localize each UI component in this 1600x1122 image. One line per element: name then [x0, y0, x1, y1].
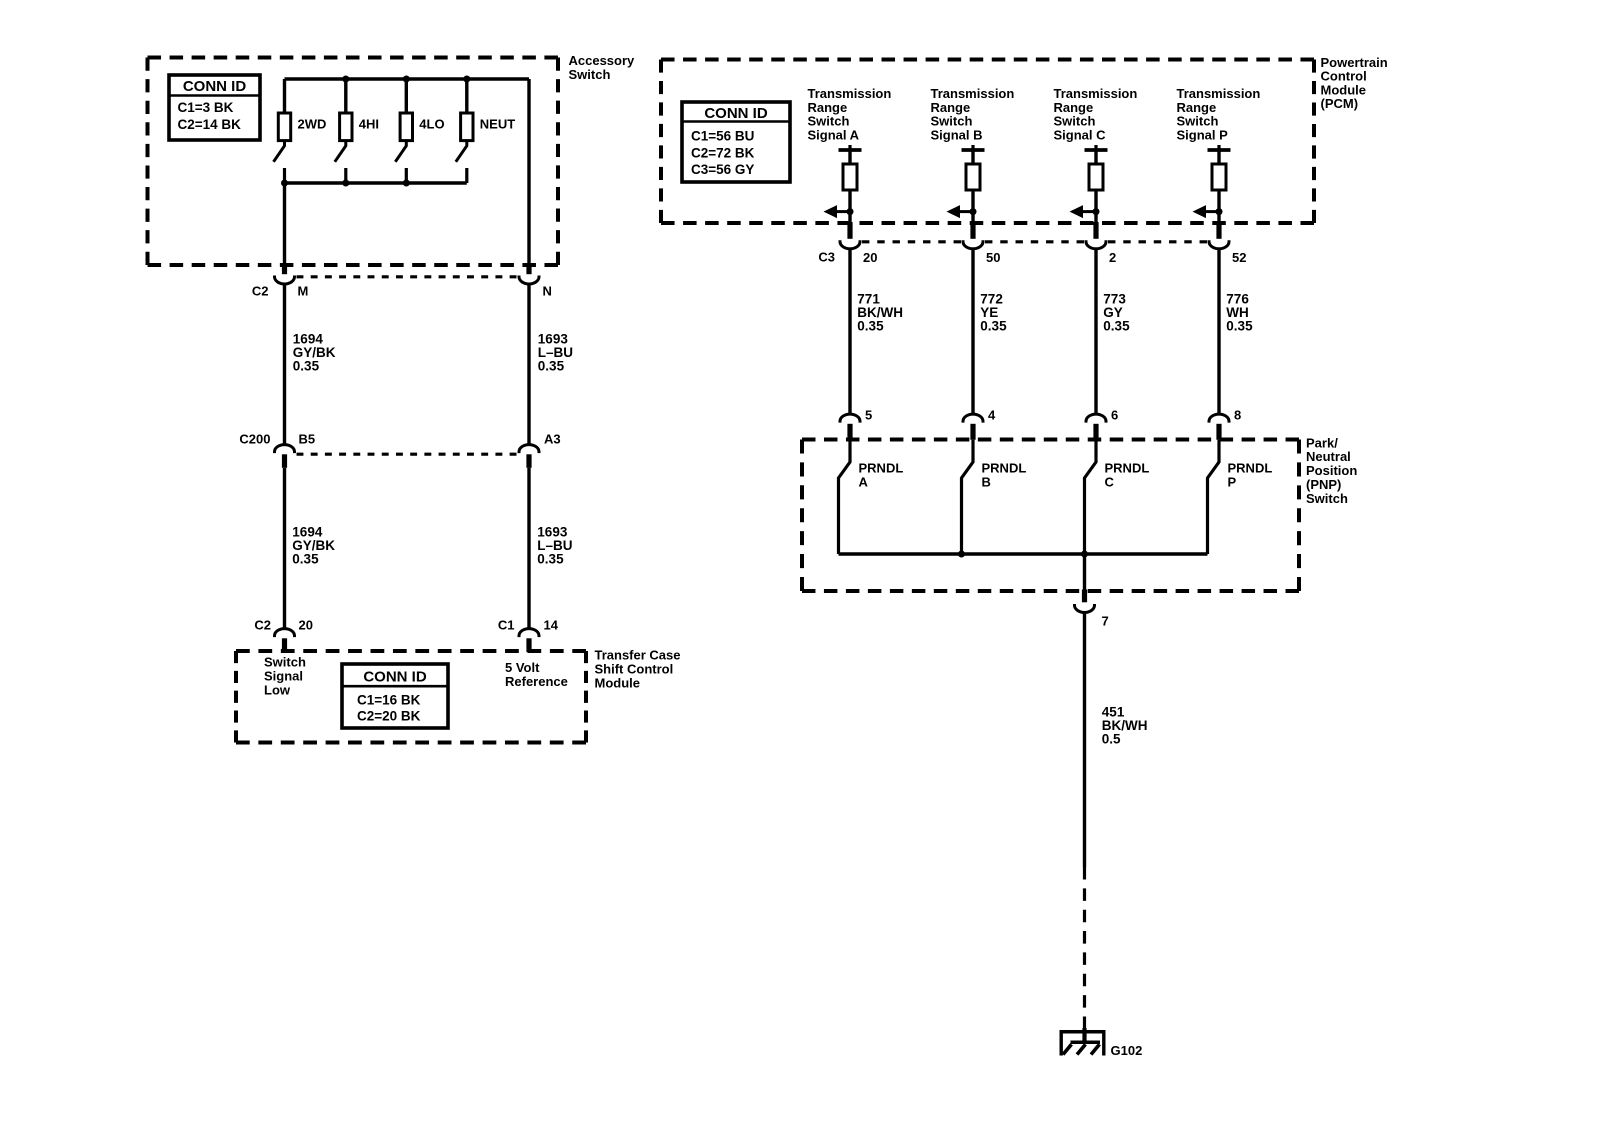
svg-text:C2: C2: [254, 617, 271, 632]
svg-text:2WD: 2WD: [298, 116, 327, 131]
switch NEUT (contact + arm): [456, 79, 473, 183]
svg-text:C1=16 BK: C1=16 BK: [357, 692, 421, 707]
wire: PCM internal A lower: [848, 190, 851, 222]
connector pin 4 (PNP switch): [963, 414, 983, 440]
wire: PCM internal B upper: [971, 150, 974, 164]
wire 776 WH: [1217, 249, 1220, 414]
svg-text:C1=56 BU: C1=56 BU: [691, 129, 754, 144]
svg-text:PRNDL: PRNDL: [1105, 460, 1150, 475]
junction top bus at NEUT: [463, 76, 470, 83]
wire 1694 GY/BK segment 1: [283, 285, 286, 445]
svg-text:PRNDL: PRNDL: [859, 460, 904, 475]
connector C3 pin 52 (PCM): [1209, 222, 1229, 249]
svg-text:14: 14: [544, 617, 559, 632]
svg-text:Reference: Reference: [505, 674, 568, 689]
svg-text:4HI: 4HI: [359, 116, 379, 131]
svg-text:Accessory: Accessory: [569, 53, 636, 68]
junction bottom bus at 4HI: [342, 180, 349, 187]
label Transmission Range Switch Signal B: [931, 86, 1015, 142]
svg-text:Low: Low: [264, 682, 291, 697]
svg-text:0.35: 0.35: [1226, 319, 1253, 334]
resistor PCM B: [966, 164, 980, 190]
svg-text:Signal P: Signal P: [1177, 127, 1229, 142]
resistor PCM A: [843, 164, 857, 190]
label Transmission Range Switch Signal P: [1177, 86, 1261, 142]
svg-text:2: 2: [1109, 250, 1116, 265]
svg-text:Position: Position: [1306, 463, 1357, 478]
connector pin 5 (PNP switch): [840, 414, 860, 440]
label wire 1694 GY/BK 0.35 (lower): [292, 524, 335, 566]
svg-text:20: 20: [863, 250, 877, 265]
CONN ID table (Transfer Case module) C1=16 BK / C2=20 BK: [342, 664, 448, 728]
label wire 772 YE 0.35: [980, 292, 1007, 334]
connector pin 8 (PNP switch): [1209, 414, 1229, 440]
svg-text:7: 7: [1102, 613, 1109, 628]
harness dotted line C3 segment 1: [862, 240, 961, 243]
label 5 Volt Reference: [505, 660, 568, 689]
label Accessory Switch: [569, 53, 636, 82]
harness dotted line C3 segment 3: [1108, 240, 1207, 243]
label wire 773 GY 0.35: [1103, 292, 1130, 334]
svg-text:Switch: Switch: [569, 67, 611, 82]
wire 1694 GY/BK segment 2: [283, 468, 286, 629]
signal arrow B: [947, 205, 977, 218]
wire 771 BK/WH: [848, 249, 851, 414]
svg-text:6: 6: [1111, 408, 1118, 423]
switch arm PRNDL C: [1085, 440, 1097, 554]
svg-text:Transfer Case: Transfer Case: [595, 648, 681, 663]
PCM pin terminal B (T-bar): [962, 145, 985, 150]
svg-text:0.35: 0.35: [292, 551, 319, 566]
svg-text:B: B: [982, 475, 991, 490]
switch arm PRNDL P: [1208, 440, 1220, 554]
label Powertrain Control Module (PCM): [1321, 55, 1388, 111]
Park/Neutral Position (PNP) Switch box: [802, 440, 1299, 592]
Accessory Switch module box: [148, 58, 559, 266]
label wire 451 BK/WH 0.5: [1102, 705, 1148, 747]
svg-text:C2=14 BK: C2=14 BK: [178, 117, 242, 132]
wire: PCM internal A upper: [848, 150, 851, 164]
switch arm PRNDL A: [839, 440, 851, 554]
switch 4HI (contact + arm): [335, 79, 352, 183]
junction top bus at 4HI: [342, 76, 349, 83]
svg-text:C1: C1: [498, 617, 515, 632]
junction bottom bus at 4LO: [403, 180, 410, 187]
svg-text:P: P: [1228, 475, 1237, 490]
svg-text:C2=72 BK: C2=72 BK: [691, 145, 755, 160]
wire: accessory switch supply bus: [285, 77, 530, 80]
connector C1 pin 14 (Transfer Case module): [519, 629, 539, 652]
wire 772 YE: [971, 249, 974, 414]
label PRNDL P: [1228, 460, 1273, 489]
label Park/Neutral Position (PNP) Switch: [1306, 435, 1357, 506]
label PRNDL B: [982, 460, 1027, 489]
svg-text:PRNDL: PRNDL: [1228, 460, 1273, 475]
label wire 776 WH 0.35: [1226, 292, 1253, 334]
svg-text:50: 50: [986, 250, 1000, 265]
label Transfer Case Shift Control Module: [595, 648, 681, 691]
label wire 771 BK/WH 0.35: [857, 292, 903, 334]
label Transmission Range Switch Signal A: [808, 86, 892, 142]
harness dotted line C3 segment 2: [985, 240, 1084, 243]
wire: branch to pin M: [283, 183, 286, 263]
junction top bus at 4LO: [403, 76, 410, 83]
svg-text:Switch: Switch: [1306, 491, 1348, 506]
svg-text:0.5: 0.5: [1102, 732, 1121, 747]
junction PNP bus at PRNDL B: [958, 551, 965, 558]
signal arrow A: [824, 205, 854, 218]
wire: branch to pin N: [527, 79, 530, 263]
switch 2WD (contact + arm): [274, 79, 291, 183]
connector pin 7 (PNP switch): [1075, 590, 1095, 613]
wire: PCM internal B lower: [971, 190, 974, 222]
svg-text:CONN ID: CONN ID: [183, 78, 247, 95]
connector C200 pin B5: [275, 445, 295, 468]
svg-text:Signal: Signal: [264, 668, 303, 683]
svg-text:(PCM): (PCM): [1321, 96, 1359, 111]
svg-text:Neutral: Neutral: [1306, 449, 1351, 464]
Transfer Case Shift Control Module box: [236, 651, 586, 743]
svg-text:C3: C3: [818, 250, 835, 265]
PCM pin terminal P (T-bar): [1208, 145, 1231, 150]
junction bottom bus at 2WD: [281, 180, 288, 187]
label Transmission Range Switch Signal C: [1054, 86, 1138, 142]
svg-text:4: 4: [988, 408, 996, 423]
PCM pin terminal C (T-bar): [1085, 145, 1108, 150]
wire: accessory switch output bus: [285, 181, 467, 184]
svg-text:20: 20: [299, 617, 313, 632]
svg-text:CONN ID: CONN ID: [704, 105, 768, 122]
svg-text:G102: G102: [1111, 1043, 1143, 1058]
harness dotted line between pins M and N: [297, 275, 517, 278]
wire 1693 L-BU segment 2: [527, 468, 530, 629]
svg-text:Shift Control: Shift Control: [595, 662, 674, 677]
wire 451 BK/WH dashed segment: [1083, 867, 1086, 1029]
svg-text:Park/: Park/: [1306, 435, 1338, 450]
svg-text:Signal B: Signal B: [931, 127, 983, 142]
switch 4LO (contact + arm): [395, 79, 412, 183]
svg-text:52: 52: [1232, 250, 1246, 265]
label PRNDL C: [1105, 460, 1150, 489]
svg-text:N: N: [543, 283, 552, 298]
signal arrow C: [1070, 205, 1100, 218]
Powertrain Control Module (PCM) box: [661, 60, 1314, 224]
svg-text:C2: C2: [252, 283, 269, 298]
label PRNDL A: [859, 460, 904, 489]
svg-text:CONN ID: CONN ID: [363, 669, 427, 686]
svg-text:A3: A3: [544, 431, 561, 446]
CONN ID table (PCM) C1=56 BU / C2=72 BK / C3=56 GY: [682, 102, 790, 182]
label wire 1693 L-BU 0.35 (lower): [537, 524, 572, 566]
svg-text:Signal C: Signal C: [1054, 127, 1107, 142]
svg-text:PRNDL: PRNDL: [982, 460, 1027, 475]
svg-text:Signal A: Signal A: [808, 127, 860, 142]
PCM pin terminal A (T-bar): [839, 145, 862, 150]
ground G102 symbol: [1060, 1028, 1106, 1056]
svg-text:Module: Module: [595, 676, 641, 691]
wire 451 BK/WH solid segment: [1083, 613, 1086, 867]
svg-text:0.35: 0.35: [857, 319, 884, 334]
resistor PCM P: [1212, 164, 1226, 190]
svg-text:0.35: 0.35: [1103, 319, 1130, 334]
wire: PNP common bus: [839, 552, 1208, 555]
svg-text:0.35: 0.35: [538, 358, 565, 373]
svg-text:0.35: 0.35: [980, 319, 1007, 334]
connector C2 pin M (Accessory Switch): [275, 263, 295, 284]
connector C3 pin 2 (PCM): [1086, 222, 1106, 249]
switch arm PRNDL B: [962, 440, 974, 554]
connector C2 pin 20 (Transfer Case module): [275, 629, 295, 652]
svg-text:5 Volt: 5 Volt: [505, 660, 540, 675]
harness dotted line C200: [297, 453, 517, 456]
resistor PCM C: [1089, 164, 1103, 190]
svg-text:C3=56 GY: C3=56 GY: [691, 162, 754, 177]
connector C3 pin 50 (PCM): [963, 222, 983, 249]
wire 1693 L-BU segment 1: [527, 285, 530, 445]
svg-text:8: 8: [1234, 408, 1241, 423]
svg-text:M: M: [298, 283, 309, 298]
wire 773 GY: [1094, 249, 1097, 414]
svg-text:0.35: 0.35: [293, 358, 320, 373]
wire: common return drop: [1083, 554, 1086, 590]
label wire 1693 L-BU 0.35: [538, 331, 573, 373]
connector pin 6 (PNP switch): [1086, 414, 1106, 440]
junction PNP bus at PRNDL C: [1081, 551, 1088, 558]
svg-text:Switch: Switch: [264, 654, 306, 669]
svg-text:C200: C200: [239, 431, 270, 446]
svg-text:(PNP): (PNP): [1306, 477, 1341, 492]
wire: PCM internal C lower: [1094, 190, 1097, 222]
CONN ID table (Accessory Switch) C1=3 BK / C2=14 BK: [169, 75, 260, 140]
label wire 1694 GY/BK 0.35: [293, 331, 336, 373]
wire: PCM internal C upper: [1094, 150, 1097, 164]
signal arrow P: [1193, 205, 1223, 218]
connector C200 pin A3: [519, 445, 539, 468]
label Switch Signal Low: [264, 654, 306, 697]
svg-text:5: 5: [865, 408, 872, 423]
svg-text:4LO: 4LO: [419, 116, 444, 131]
svg-text:B5: B5: [299, 431, 316, 446]
svg-text:NEUT: NEUT: [480, 116, 515, 131]
svg-text:A: A: [859, 475, 869, 490]
connector C2 pin N (Accessory Switch): [519, 263, 539, 284]
svg-text:0.35: 0.35: [537, 551, 564, 566]
svg-text:C2=20 BK: C2=20 BK: [357, 709, 421, 724]
svg-text:C: C: [1105, 475, 1115, 490]
wire: PCM internal P upper: [1217, 150, 1220, 164]
connector C3 pin 20 (PCM): [840, 222, 860, 249]
wire: PCM internal P lower: [1217, 190, 1220, 222]
svg-text:C1=3 BK: C1=3 BK: [178, 100, 234, 115]
